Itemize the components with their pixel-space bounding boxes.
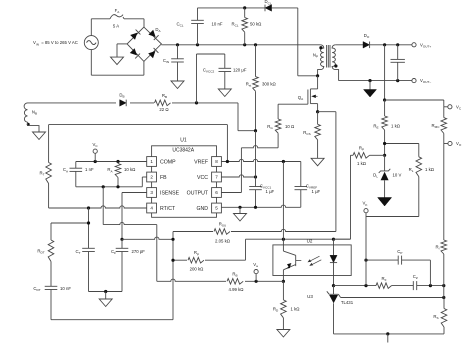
svg-text:TL431: TL431 — [341, 300, 354, 305]
svg-text:7: 7 — [215, 175, 218, 180]
svg-text:5 A: 5 A — [113, 24, 119, 29]
svg-text:OUTPUT: OUTPUT — [187, 190, 209, 196]
svg-text:1 kΩ: 1 kΩ — [291, 307, 301, 312]
svg-text:4.99 kΩ: 4.99 kΩ — [229, 287, 245, 292]
svg-text:4: 4 — [150, 206, 153, 211]
svg-text:RT/CT: RT/CT — [160, 206, 176, 212]
svg-text:2: 2 — [150, 175, 153, 180]
svg-text:10 kΩ: 10 kΩ — [124, 167, 136, 172]
svg-text:200 kΩ: 200 kΩ — [190, 267, 205, 272]
svg-text:COMP: COMP — [160, 159, 176, 165]
svg-text:1 nF: 1 nF — [85, 167, 94, 172]
svg-text:U3: U3 — [307, 294, 313, 299]
svg-text:120 μF: 120 μF — [233, 67, 247, 72]
svg-text:10 Ω: 10 Ω — [285, 124, 295, 129]
svg-text:1: 1 — [150, 159, 153, 164]
svg-text:3: 3 — [150, 190, 153, 195]
svg-text:1 μF: 1 μF — [266, 189, 275, 194]
svg-text:= 85 V to 265 V AC: = 85 V to 265 V AC — [41, 40, 78, 45]
svg-text:1 kΩ: 1 kΩ — [391, 124, 401, 129]
svg-text:270 pF: 270 pF — [132, 249, 146, 254]
svg-text:1 μF: 1 μF — [312, 189, 321, 194]
svg-text:2.05 kΩ: 2.05 kΩ — [215, 239, 231, 244]
svg-text:UC3842A: UC3842A — [172, 147, 194, 153]
svg-text:5: 5 — [215, 206, 218, 211]
svg-text:VREF: VREF — [194, 159, 208, 165]
svg-text:U2: U2 — [307, 239, 313, 244]
svg-text:50 kΩ: 50 kΩ — [250, 21, 262, 26]
svg-text:300 kΩ: 300 kΩ — [262, 82, 277, 87]
svg-text:8: 8 — [215, 159, 218, 164]
svg-text:10 nF: 10 nF — [60, 286, 71, 291]
svg-text:22 Ω: 22 Ω — [159, 107, 169, 112]
svg-text:ISENSE: ISENSE — [160, 190, 180, 196]
svg-text:U1: U1 — [180, 137, 187, 143]
svg-text:10 V: 10 V — [393, 173, 402, 178]
svg-text:1 kΩ: 1 kΩ — [425, 167, 435, 172]
svg-text:FB: FB — [160, 175, 167, 181]
svg-text:10 nF: 10 nF — [212, 21, 223, 26]
svg-text:GND: GND — [196, 206, 208, 212]
svg-text:VCC: VCC — [197, 175, 208, 181]
svg-text:1 kΩ: 1 kΩ — [357, 161, 367, 166]
svg-text:6: 6 — [215, 190, 218, 195]
